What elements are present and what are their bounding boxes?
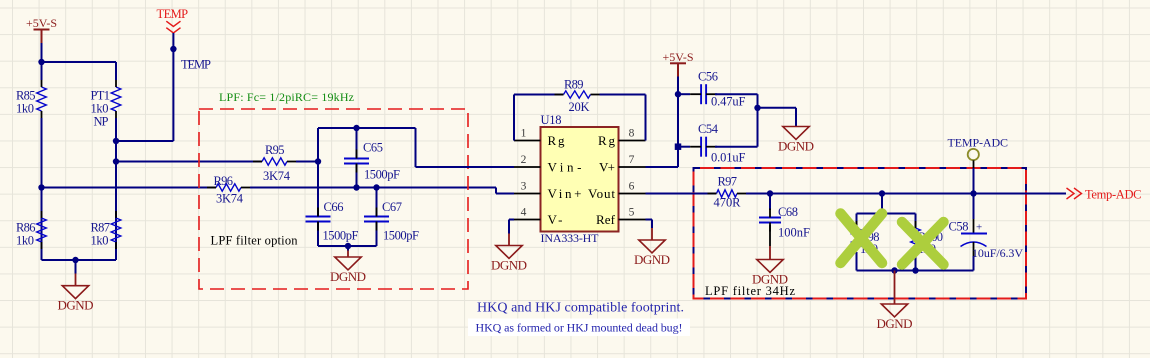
svg-text:DGND: DGND bbox=[752, 272, 788, 287]
svg-text:TEMP-ADC: TEMP-ADC bbox=[948, 136, 1009, 150]
svg-text:470R: 470R bbox=[714, 196, 742, 210]
svg-text:Temp-ADC: Temp-ADC bbox=[1085, 188, 1142, 202]
svg-text:HKQ as formed or HKJ mounted d: HKQ as formed or HKJ mounted dead bug! bbox=[476, 321, 683, 335]
svg-text:5: 5 bbox=[629, 207, 635, 219]
svg-text:R86: R86 bbox=[16, 221, 36, 235]
svg-text:C67: C67 bbox=[382, 200, 402, 214]
svg-text:TEMP: TEMP bbox=[181, 58, 211, 72]
svg-text:C66: C66 bbox=[324, 200, 344, 214]
svg-text:DGND: DGND bbox=[330, 269, 366, 284]
svg-text:U18: U18 bbox=[541, 113, 562, 127]
svg-text:C65: C65 bbox=[363, 141, 383, 155]
svg-text:INA333-HT: INA333-HT bbox=[541, 231, 600, 245]
svg-text:R87: R87 bbox=[91, 221, 111, 235]
svg-text:1k0: 1k0 bbox=[16, 102, 34, 116]
svg-text:20K: 20K bbox=[569, 100, 590, 114]
svg-text:LPF filter option: LPF filter option bbox=[211, 234, 299, 248]
svg-text:NP: NP bbox=[94, 115, 109, 129]
svg-text:3K74: 3K74 bbox=[263, 169, 291, 183]
svg-text:C58: C58 bbox=[949, 220, 969, 234]
svg-text:R89: R89 bbox=[564, 78, 584, 92]
svg-text:+5V-S: +5V-S bbox=[26, 16, 57, 30]
svg-text:DGND: DGND bbox=[877, 316, 913, 331]
svg-text:V+: V+ bbox=[599, 160, 615, 175]
svg-text:DGND: DGND bbox=[491, 258, 527, 273]
svg-text:1k0: 1k0 bbox=[91, 234, 109, 248]
svg-text:HKQ and HKJ compatible footpri: HKQ and HKJ compatible footprint. bbox=[477, 301, 684, 316]
svg-text:1500pF: 1500pF bbox=[323, 229, 359, 243]
svg-text:4: 4 bbox=[521, 207, 527, 219]
svg-text:2: 2 bbox=[521, 154, 527, 166]
svg-text:R95: R95 bbox=[265, 143, 285, 157]
svg-text:Ref: Ref bbox=[596, 212, 616, 227]
svg-text:C68: C68 bbox=[778, 205, 798, 219]
svg-text:C54: C54 bbox=[698, 122, 719, 136]
svg-text:3: 3 bbox=[521, 181, 527, 193]
svg-text:7: 7 bbox=[629, 154, 635, 166]
svg-text:DGND: DGND bbox=[58, 298, 94, 313]
svg-text:+: + bbox=[976, 222, 982, 234]
svg-text:DGND: DGND bbox=[778, 139, 814, 154]
svg-text:100nF: 100nF bbox=[778, 226, 810, 240]
svg-text:DGND: DGND bbox=[634, 252, 670, 267]
svg-text:R97: R97 bbox=[718, 175, 738, 189]
svg-text:R96: R96 bbox=[214, 174, 234, 188]
svg-text:1: 1 bbox=[521, 128, 527, 140]
svg-text:R85: R85 bbox=[16, 89, 36, 103]
svg-text:Vout: Vout bbox=[588, 186, 615, 201]
svg-text:0.47uF: 0.47uF bbox=[711, 95, 746, 109]
svg-text:PT1: PT1 bbox=[91, 89, 111, 103]
svg-text:10uF/6.3V: 10uF/6.3V bbox=[972, 246, 1023, 260]
svg-text:1500pF: 1500pF bbox=[364, 168, 400, 182]
svg-text:8: 8 bbox=[629, 128, 635, 140]
svg-text:1500pF: 1500pF bbox=[383, 229, 419, 243]
svg-text:V-: V- bbox=[548, 212, 563, 227]
svg-text:6: 6 bbox=[629, 181, 635, 193]
svg-text:1k0: 1k0 bbox=[16, 234, 34, 248]
svg-text:C56: C56 bbox=[698, 70, 718, 84]
svg-text:LPF: Fc= 1/2piRC= 19kHz: LPF: Fc= 1/2piRC= 19kHz bbox=[219, 90, 354, 104]
svg-text:0.01uF: 0.01uF bbox=[711, 151, 746, 165]
svg-text:TEMP: TEMP bbox=[157, 7, 189, 21]
svg-text:Vin+: Vin+ bbox=[548, 186, 582, 201]
svg-text:+5V-S: +5V-S bbox=[663, 50, 694, 64]
svg-text:1k0: 1k0 bbox=[91, 102, 109, 116]
svg-text:3K74: 3K74 bbox=[216, 192, 244, 206]
